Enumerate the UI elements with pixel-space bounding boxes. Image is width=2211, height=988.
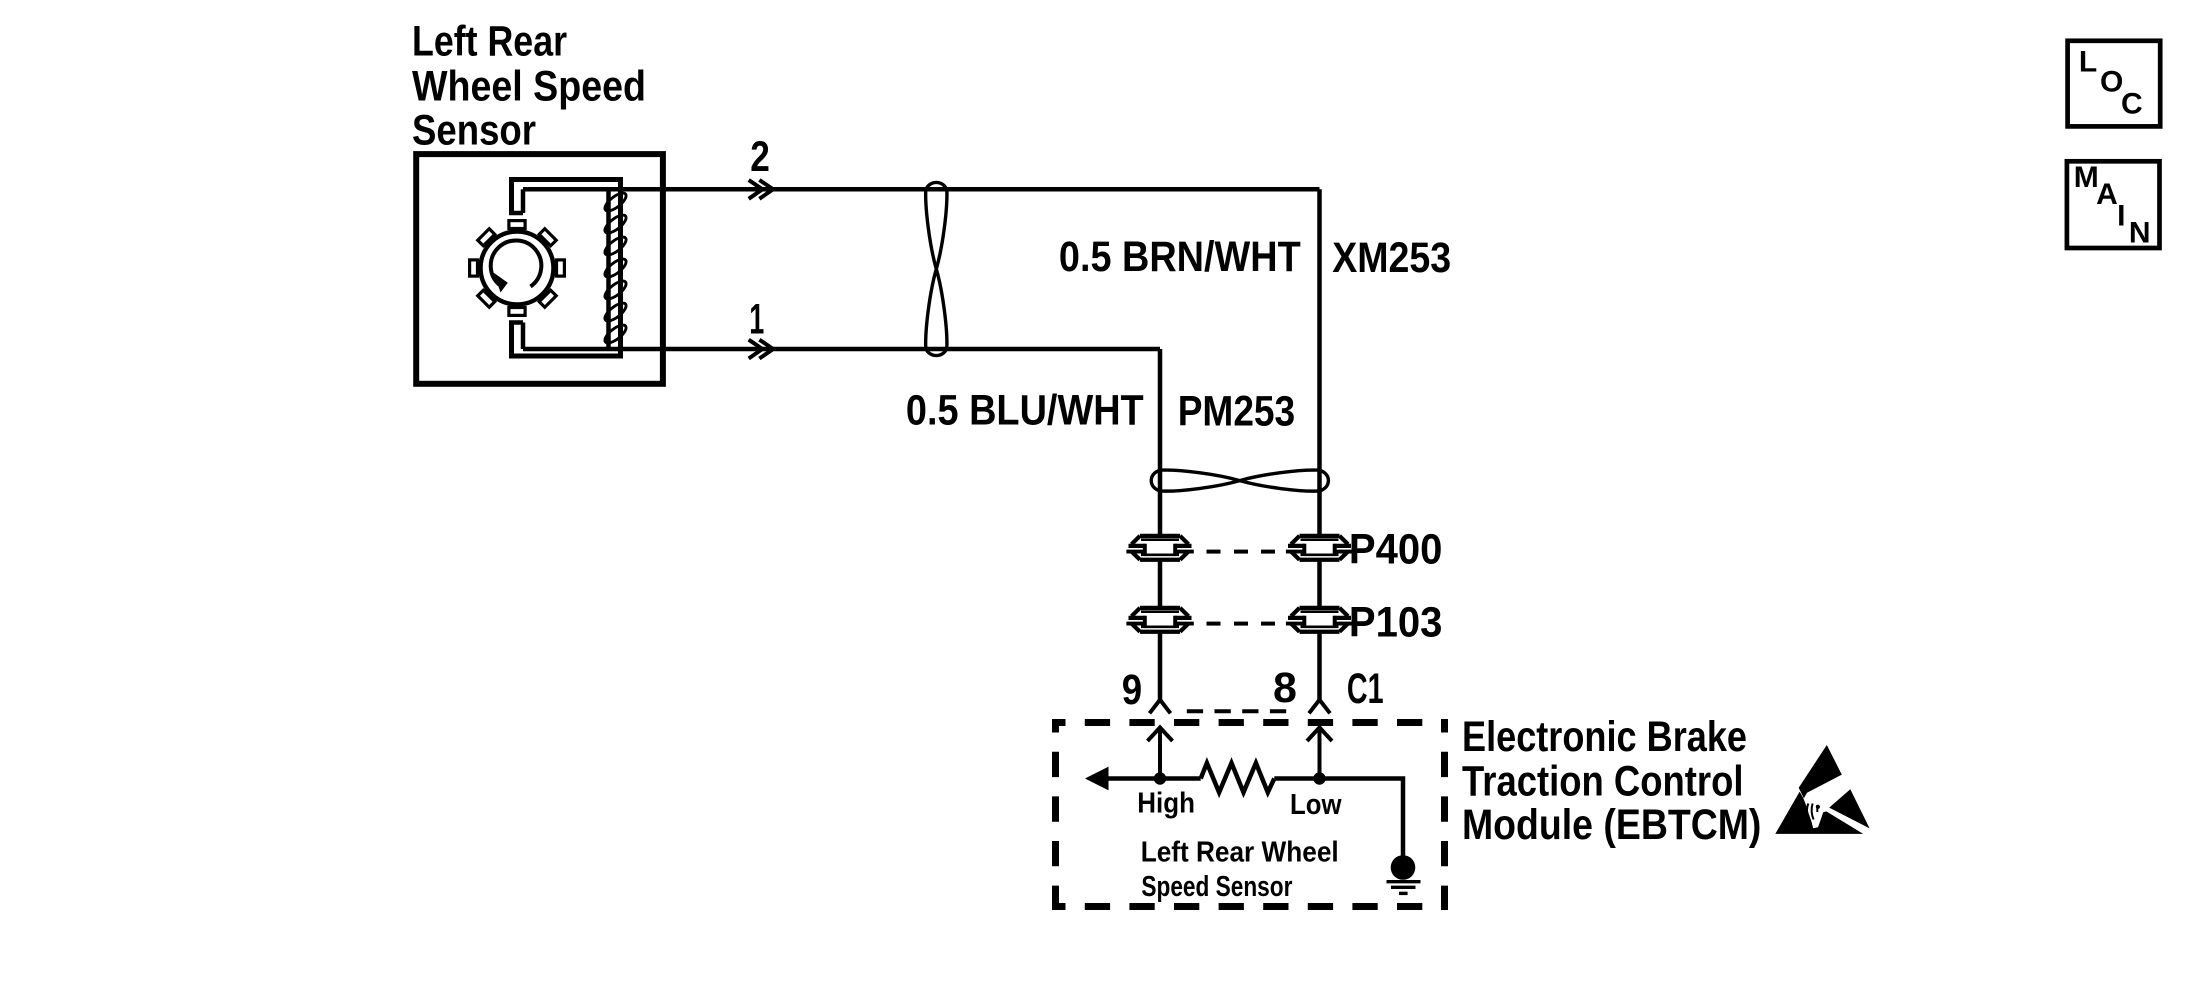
svg-text:N: N bbox=[2129, 216, 2151, 249]
pin 8 fork terminal bbox=[1309, 700, 1330, 714]
svg-text:A: A bbox=[2096, 178, 2118, 211]
wire: PM253 vertical run bbox=[1158, 349, 1163, 700]
module title: Electronic Brake Traction Control Module (EBTCM) bbox=[1462, 713, 1761, 849]
svg-text:Low: Low bbox=[1290, 789, 1342, 821]
svg-text:Module (EBTCM): Module (EBTCM) bbox=[1462, 801, 1761, 849]
rotation arrow bbox=[491, 240, 542, 286]
svg-text:Electronic Brake: Electronic Brake bbox=[1462, 713, 1747, 761]
svg-text:P400: P400 bbox=[1349, 526, 1443, 574]
svg-text:Left Rear: Left Rear bbox=[412, 17, 567, 65]
svg-text:O: O bbox=[2100, 66, 2123, 99]
svg-text:L: L bbox=[2079, 45, 2097, 78]
pin 9 fork terminal bbox=[1150, 700, 1171, 714]
ground symbol bbox=[1387, 855, 1421, 893]
MAIN reference box bbox=[2067, 161, 2160, 248]
node title: Left Rear Wheel Speed Sensor bbox=[412, 17, 646, 154]
svg-text:C1: C1 bbox=[1347, 665, 1384, 713]
sensor box outline bbox=[416, 154, 663, 384]
twisted pair symbol (horizontal, between vertical runs) bbox=[1151, 470, 1328, 491]
MAIN letters bbox=[2074, 161, 2151, 249]
P400 dashed tie bbox=[1207, 550, 1276, 554]
inline connector P400 (right half-pair) bbox=[1286, 536, 1353, 560]
wire: High output segment bbox=[1104, 776, 1201, 781]
connector chevrons on wire 2 bbox=[749, 180, 773, 199]
svg-text:I: I bbox=[2117, 199, 2125, 232]
ESD warning symbol bbox=[1775, 745, 1869, 834]
twisted pair symbol (vertical, between wires 1 and 2) bbox=[926, 182, 947, 355]
LOC letters bbox=[2079, 45, 2143, 120]
tone wheel teeth bbox=[470, 221, 565, 316]
resistor (sensor bias, internal) bbox=[1201, 763, 1275, 792]
wire: sensor pin 2 to corner (0.5 BRN/WHT) bbox=[523, 187, 1320, 192]
svg-text:High: High bbox=[1137, 788, 1195, 820]
wire: XM253 vertical run bbox=[1317, 189, 1322, 700]
svg-text:PM253: PM253 bbox=[1178, 388, 1296, 436]
inline connector P400 (left half-pair) bbox=[1126, 536, 1193, 560]
svg-text:Wheel Speed: Wheel Speed bbox=[412, 63, 646, 111]
svg-text:Sensor: Sensor bbox=[412, 107, 536, 155]
sensor pole piece (C-core) bbox=[509, 180, 621, 357]
junction dot High bbox=[1154, 772, 1166, 784]
svg-text:Speed Sensor: Speed Sensor bbox=[1141, 871, 1292, 903]
svg-text:8: 8 bbox=[1273, 664, 1297, 712]
inline connector P103 (right half-pair) bbox=[1286, 608, 1353, 632]
C1 connector dashed line bbox=[1187, 709, 1287, 713]
svg-text:9: 9 bbox=[1122, 666, 1142, 714]
svg-text:0.5 BLU/WHT: 0.5 BLU/WHT bbox=[906, 387, 1144, 435]
svg-text:Left Rear Wheel: Left Rear Wheel bbox=[1141, 836, 1339, 868]
EBTCM dashed box border bbox=[1052, 719, 1448, 910]
svg-text:P103: P103 bbox=[1349, 599, 1443, 647]
EBTCM input arrow (pin 9, High) bbox=[1148, 728, 1173, 777]
svg-text:1: 1 bbox=[749, 296, 764, 344]
svg-text:Traction Control: Traction Control bbox=[1462, 758, 1744, 806]
svg-text:2: 2 bbox=[750, 133, 770, 181]
sensor coil bbox=[602, 190, 629, 346]
svg-text:M: M bbox=[2074, 161, 2099, 194]
inline connector P103 (left half-pair) bbox=[1126, 608, 1193, 632]
wire: sensor pin 1 to corner (0.5 BLU/WHT) bbox=[523, 347, 1160, 352]
P103 dashed tie bbox=[1207, 622, 1276, 626]
svg-text:C: C bbox=[2121, 88, 2143, 121]
tone wheel bbox=[481, 232, 554, 305]
LOC reference box bbox=[2068, 41, 2161, 127]
junction dot Low bbox=[1313, 772, 1325, 784]
wire: Low to ground drop bbox=[1274, 779, 1403, 857]
svg-text:0.5 BRN/WHT: 0.5 BRN/WHT bbox=[1059, 233, 1301, 281]
left signal arrowhead bbox=[1085, 767, 1109, 791]
EBTCM input arrow (pin 8, Low) bbox=[1307, 728, 1332, 777]
connector chevrons on wire 1 bbox=[749, 340, 773, 359]
svg-text:XM253: XM253 bbox=[1332, 234, 1451, 282]
